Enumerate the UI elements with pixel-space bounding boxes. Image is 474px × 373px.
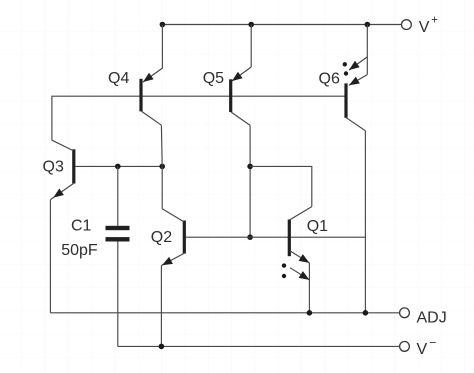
wire: Q2/Q1 base line <box>186 236 366 238</box>
wire: Q5 emitter up to V+ rail <box>250 25 252 68</box>
wire: Q4 collector down to Q3 base node <box>160 125 163 166</box>
svg-text:Q5: Q5 <box>203 70 224 87</box>
svg-text:V: V <box>419 19 430 36</box>
junction: Q1 emitters / ADJ rail <box>307 310 313 316</box>
wire: V+ top rail <box>162 24 401 26</box>
wire: Q6 emitters up to V+ rail <box>366 25 368 75</box>
transistor Q6 (multi-emitter) <box>343 57 368 131</box>
wire: Q2 collector up to Q3 base node <box>161 166 163 208</box>
junction: Q4 collector / Q2 collector / Q3 base <box>159 164 165 170</box>
junction: Q5 emitter / V+ rail <box>248 22 254 28</box>
wire: Q6 collector down to ADJ rail <box>364 131 366 313</box>
junction: Q5 collector / Q1 collector branch <box>247 164 253 170</box>
svg-text:C1: C1 <box>71 217 92 234</box>
svg-text:Q3: Q3 <box>43 158 64 175</box>
wire: Q2 emitter down to V- rail <box>160 266 162 347</box>
svg-text:+: + <box>431 15 438 27</box>
transistor Q3 <box>50 140 73 199</box>
wire: Q1 collector up and over to Q5 collector <box>250 166 312 206</box>
wire: Q1 emitters down to ADJ rail <box>308 263 310 313</box>
terminal V- <box>400 335 437 358</box>
capacitor C1 <box>106 166 130 346</box>
junction: Q2 emitter / V- rail <box>159 344 165 350</box>
svg-text:−: − <box>429 335 436 349</box>
wire: Q3 base node (to C1 and Q4/Q2 collectors) <box>75 165 162 167</box>
wire: V- rail <box>118 345 400 347</box>
svg-text:Q2: Q2 <box>151 229 172 246</box>
junction: Q6 collector / ADJ rail <box>363 310 369 316</box>
wire: Q5 collector down to Q2/Q1 base line <box>249 125 251 237</box>
transistor Q5 <box>231 67 252 125</box>
wire: Q4 emitter up to V+ rail <box>161 25 163 69</box>
wire: ADJ rail <box>50 312 399 314</box>
terminal V+ <box>402 15 439 37</box>
terminal ADJ <box>400 308 447 326</box>
wire: Q3 emitter down to ADJ rail <box>49 200 51 313</box>
wire: base bus from Q3 collector to bases of Q4, Q5, Q6 <box>52 96 345 140</box>
junction: Q5 collector / Q2-Q1 base line <box>247 234 253 240</box>
junction: C1 / Q3 base <box>115 164 121 170</box>
svg-text:50pF: 50pF <box>61 242 98 259</box>
svg-text:Q4: Q4 <box>108 70 129 87</box>
svg-text:Q6: Q6 <box>319 70 340 87</box>
svg-text:Q1: Q1 <box>307 218 328 235</box>
transistor Q2 <box>161 209 184 266</box>
transistor Q1 (multi-emitter) <box>282 207 312 280</box>
svg-text:V: V <box>417 341 428 358</box>
junction: Q6 emitter / V+ rail <box>365 22 371 28</box>
transistor Q4 <box>141 68 163 125</box>
junction: Q4 emitter / V+ rail <box>160 22 166 28</box>
svg-text:ADJ: ADJ <box>417 309 447 326</box>
